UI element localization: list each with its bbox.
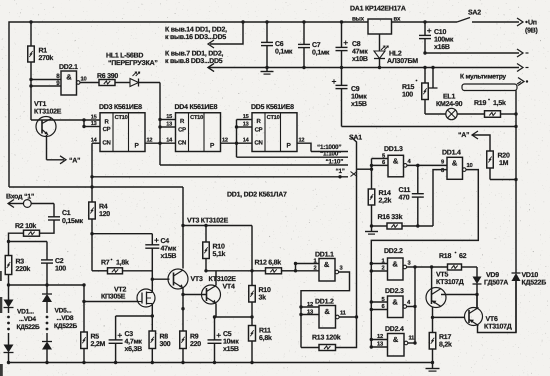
svg-text:R12 6,8k: R12 6,8k [255, 259, 282, 267]
svg-text:10мк: 10мк [223, 339, 239, 346]
svg-text:“А”: “А” [458, 132, 469, 139]
resistor R8 300 [149, 331, 171, 363]
wire: DD2.3 inputs [370, 300, 388, 311]
ignore: scan edge artifact 3 [0, 364, 3, 376]
wire: right vertical bus (multimeter/VD10 line) [515, 91, 517, 333]
svg-text:VD5...: VD5... [55, 308, 72, 315]
svg-text:HL2: HL2 [389, 51, 402, 58]
transistor VT3 КТ3102Е [168, 218, 229, 290]
svg-text:КМ24-90: КМ24-90 [436, 101, 463, 108]
wire: gate output node to R18 / VT5 base [415, 265, 448, 268]
resistor R13 120k [301, 317, 357, 351]
wire: R2 node to C2 [9, 241, 48, 243]
svg-text:CN: CN [178, 140, 186, 147]
resistor R6 390 [80, 73, 130, 86]
capacitor C6 0,1мк [261, 22, 293, 68]
svg-text:C11: C11 [399, 187, 411, 194]
wire: multimeter sense loop [462, 84, 517, 91]
wire: DD4 pin12 to DD5 pins and '1:100' tap [221, 120, 253, 158]
wire: clamp node y=285 [7, 283, 86, 286]
svg-text:VD9: VD9 [486, 272, 499, 279]
capacitor C7 0,1мк [298, 22, 330, 69]
svg-text:R10: R10 [259, 287, 271, 294]
logic gate DD1.2 [307, 299, 347, 329]
wire: rail to arrow (row 2) [425, 49, 529, 57]
resistor R7* 1,8k [92, 259, 152, 274]
svg-text:R4: R4 [99, 204, 108, 211]
svg-text:CP: CP [178, 126, 186, 133]
capacitor C9 10мк x15В (polarized) [332, 68, 367, 127]
svg-text:CN: CN [254, 140, 262, 147]
svg-text:12: 12 [307, 301, 313, 308]
logic gate DD2.2 [382, 248, 412, 280]
text: K vyv.7 DD1 DD2 / k vyv.8 DD3...DD5 with arrow [165, 51, 223, 72]
resistor R14 2,2k [368, 189, 391, 228]
wire: DD2.4 inputs [370, 338, 388, 349]
svg-text:HL1 L-56ВD: HL1 L-56ВD [106, 53, 143, 60]
wire: top supply bus (+) from left corner to DA1 and SA2 [9, 20, 457, 187]
wire: mid supply bus y=187 [9, 186, 183, 188]
wire: SA1 to DD1.3 inputs and R14 [357, 159, 389, 190]
svg-text:К выв.14 DD1, DD2,: К выв.14 DD1, DD2, [165, 27, 227, 34]
wire: VT5 collector row [441, 293, 479, 296]
svg-text:DA1 КР142ЕН17А: DA1 КР142ЕН17А [350, 6, 406, 13]
voltage regulator DA1 КР142ЕН17А [350, 6, 406, 35]
svg-text:x16В: x16В [434, 44, 450, 51]
svg-text:КТ3107Д: КТ3107Д [484, 324, 512, 331]
svg-text:8,2k: 8,2k [439, 341, 452, 349]
svg-text:R17: R17 [439, 334, 451, 341]
svg-text:C5: C5 [223, 331, 232, 338]
wire: VT4 base from VT3 emitter [183, 294, 207, 296]
svg-text:R18: R18 [439, 253, 451, 260]
svg-text:R14: R14 [379, 190, 391, 197]
wire: '1:10' line [160, 159, 348, 166]
svg-text:&: & [324, 260, 330, 269]
logic gate DD1.3 [382, 146, 411, 177]
svg-text:КД522Б: КД522Б [54, 323, 77, 330]
resistor R5 2,2М [81, 332, 106, 363]
svg-text:...VD8: ...VD8 [57, 315, 74, 322]
svg-text:CN: CN [102, 140, 110, 147]
capacitor C1 0,15мк [40, 204, 84, 234]
diodes VD1...VD4 КД522Б [4, 285, 40, 363]
resistor R10 5,1k [203, 226, 226, 273]
svg-text:“1:10”: “1:10” [326, 159, 344, 166]
svg-text:DD2.2: DD2.2 [384, 248, 403, 255]
svg-text:&: & [393, 157, 399, 166]
transistor VT1 КТ3102Е [34, 101, 62, 137]
svg-text:DD1.1: DD1.1 [315, 252, 334, 259]
switch SA2 [457, 10, 519, 23]
wire: DD1.2 output to SA1 line [339, 315, 358, 318]
capacitor C10 100мк x16В (polarized) [419, 22, 454, 55]
resistor R12 6,8k [255, 259, 296, 274]
ground (R16) [365, 226, 378, 234]
wire: DD2.2 inputs [370, 262, 388, 273]
wire: shunt tap stub [429, 68, 438, 89]
svg-text:R6 390: R6 390 [97, 73, 118, 80]
resistor R19* 1,5k [474, 99, 518, 118]
svg-text:КД522Б: КД522Б [17, 324, 40, 331]
wire: C9 bottom bus to right vertical [342, 125, 518, 128]
svg-text:10мк: 10мк [351, 94, 367, 101]
wire: VT4 emitter to node [215, 304, 217, 318]
svg-text:КТ3102Е: КТ3102Е [209, 276, 237, 283]
ground (C6/C7 bus) [261, 66, 274, 74]
svg-text:R11: R11 [259, 328, 271, 335]
svg-text:DD1, DD2 К561ЛА7: DD1, DD2 К561ЛА7 [227, 192, 287, 199]
wire: DD1.1 output loop to DD1.2 inputs [299, 272, 349, 348]
svg-text:ГД507А: ГД507А [484, 280, 508, 287]
svg-text:VD1...: VD1... [17, 309, 34, 316]
svg-text:(9В): (9В) [525, 27, 538, 35]
wire: DD3 CN stub and '1' tap vertical [90, 143, 100, 189]
wire: DD1.4 output loop to DD2 inputs [371, 170, 478, 347]
svg-text:VT2: VT2 [114, 287, 126, 294]
wire: R1 node to DD2.1 pins 8 and 9 [29, 78, 61, 120]
svg-text:R7: R7 [101, 260, 110, 267]
capacitor C4 47мк x15В (polarized) [145, 234, 176, 272]
lamp EL1 КМ24-90 [425, 94, 485, 120]
resistor R4 120 [89, 187, 111, 271]
svg-text:C9: C9 [351, 86, 360, 93]
svg-text:DD1.3: DD1.3 [384, 146, 403, 153]
svg-text:C7: C7 [312, 42, 321, 49]
wire: VT2 source node to C3 and R8 [116, 314, 154, 331]
capacitor C3 4,7мк x6,3В (polarized) [109, 316, 143, 363]
node A (right) with arrow and wire to R20 [458, 131, 490, 151]
svg-text:300: 300 [160, 341, 171, 348]
svg-text:...VD4: ...VD4 [19, 316, 36, 323]
svg-text:C2: C2 [55, 258, 64, 265]
logic gate DD2.4 [377, 326, 415, 356]
svg-text:R20: R20 [498, 153, 510, 160]
svg-text:0,15мк: 0,15мк [62, 218, 84, 225]
resistor R10 3k [249, 226, 271, 303]
svg-text:2,2k: 2,2k [379, 197, 392, 205]
LED HL2 АЛ307БМ [374, 34, 418, 69]
svg-text:“1”: “1” [336, 168, 345, 175]
resistor R9 220 [180, 331, 202, 349]
svg-text:x15В: x15В [351, 101, 367, 108]
svg-text:вых: вых [352, 16, 365, 23]
svg-text:5,1k: 5,1k [213, 250, 226, 258]
svg-text:100мк: 100мк [434, 37, 454, 44]
transistor VT6 КТ3107Д [465, 308, 512, 331]
svg-text:&: & [66, 73, 72, 82]
wire: VT5 emitter [431, 307, 434, 333]
svg-text:DD4 К561ИЕ8: DD4 К561ИЕ8 [175, 104, 218, 111]
ignore: scan edge artifact 2 [0, 297, 2, 313]
svg-text:10: 10 [81, 76, 87, 83]
svg-text:R1: R1 [39, 48, 48, 55]
resistor R15 100 [402, 68, 428, 115]
svg-text:R5: R5 [91, 334, 100, 341]
svg-text:C1: C1 [62, 210, 71, 217]
wire: y=187 bus to collector rail [181, 187, 252, 269]
svg-text:15: 15 [91, 114, 97, 120]
wire: DD2 outputs parallel bus [407, 265, 417, 344]
svg-text:VT4: VT4 [223, 284, 235, 291]
svg-text:4,7мк: 4,7мк [125, 339, 143, 346]
wire: VT6 collector [476, 295, 478, 309]
svg-text:0,1мк: 0,1мк [275, 49, 293, 56]
logic gate DD2.1 [56, 64, 86, 95]
wire: VT4 collector [215, 271, 217, 286]
svg-text:C6: C6 [275, 41, 284, 48]
input terminal Вход '1' [6, 194, 54, 208]
svg-text:x10В: x10В [352, 56, 368, 63]
svg-text:CT10: CT10 [115, 115, 128, 121]
svg-text:1,8k: 1,8k [116, 259, 129, 267]
wire: DD5 pin12 to '1:1000' line [297, 143, 311, 151]
resistor R11 6,8k [249, 302, 272, 363]
svg-text:x15В: x15В [161, 253, 177, 260]
svg-text:&: & [392, 260, 398, 269]
svg-text:62: 62 [459, 253, 467, 260]
svg-text:&: & [324, 307, 330, 316]
svg-text:x15В: x15В [223, 346, 239, 353]
wire: DD3 pin12 to DD4 pins (and HL1 node vertical) [145, 83, 176, 166]
ground (main, bottom right) [426, 363, 440, 372]
svg-text:вх: вх [394, 16, 402, 23]
wire: VT6 base from VT5 emitter [433, 316, 465, 318]
svg-text:DD2.3: DD2.3 [385, 288, 404, 295]
svg-text:100: 100 [55, 266, 66, 273]
resistor R20 1М [487, 151, 518, 181]
ignore: scan edge artifact 1 [0, 271, 2, 281]
svg-text:120: 120 [99, 211, 110, 218]
node: VT2 drain / VT3 base junction [151, 271, 170, 290]
svg-text:R19: R19 [474, 100, 486, 107]
svg-text:R3: R3 [16, 259, 25, 266]
svg-text:“1:100”: “1:100” [320, 151, 341, 158]
switch SA1 [349, 135, 362, 318]
svg-text:2,2М: 2,2М [91, 341, 106, 348]
logic gate DD1.1 [314, 252, 344, 282]
svg-text:R15: R15 [402, 84, 414, 91]
svg-text:CT10: CT10 [267, 115, 280, 121]
svg-text:АЛ307БМ: АЛ307БМ [387, 58, 418, 65]
text: K vyv.14 DD1 DD2 / k vyv.16 DD3...DD5 with arrow [165, 22, 243, 48]
svg-text:220: 220 [190, 341, 201, 348]
svg-text:SA2: SA2 [468, 10, 481, 17]
resistor R16 33k [372, 213, 434, 229]
resistor R2 10k [7, 222, 40, 243]
svg-text:К выв.7 DD1, DD2,: К выв.7 DD1, DD2, [165, 51, 223, 58]
svg-text:470: 470 [399, 195, 410, 202]
counter DD3 К561ИЕ8 [91, 104, 153, 152]
svg-text:“А”: “А” [69, 158, 80, 165]
svg-text:13: 13 [307, 308, 314, 315]
svg-text:100: 100 [402, 92, 413, 99]
wire: VT4 emitter row to R11 [213, 315, 254, 318]
svg-text:R16 33k: R16 33k [378, 213, 403, 221]
svg-text:C10: C10 [434, 29, 446, 36]
svg-text:3k: 3k [259, 294, 267, 302]
svg-text:47мк: 47мк [161, 246, 177, 253]
logic gate DD1.4 [441, 150, 472, 180]
diode VD9 ГД507А [473, 267, 509, 308]
svg-text:DD2.4: DD2.4 [385, 326, 404, 333]
diode VD10 КД522Б [512, 272, 547, 287]
wire: VT1 emitter to node A with arrow [47, 135, 81, 165]
svg-text:VT3: VT3 [191, 276, 203, 283]
svg-text:КТ3102Е: КТ3102Е [34, 109, 62, 116]
terminal arrow -Uп (9В) [517, 18, 538, 35]
resistor R17 8,2k [429, 333, 452, 363]
wire: '1:100' line [237, 151, 349, 158]
capacitor C2 100 [41, 242, 66, 286]
LED HL1 L-5680 'ПЕРЕГРУЗКА' [106, 53, 160, 87]
wire: '1' line [92, 168, 348, 179]
svg-text:VT3 КТ3102Е: VT3 КТ3102Е [187, 218, 229, 225]
capacitor C11 470 [399, 164, 424, 228]
svg-text:0,1мк: 0,1мк [312, 50, 330, 57]
capacitor C8 47мк x10В (polarized) [336, 22, 369, 69]
svg-text:DD1.2: DD1.2 [315, 299, 334, 306]
svg-text:220k: 220k [16, 265, 31, 273]
svg-text:C3: C3 [125, 331, 134, 338]
svg-text:C4: C4 [161, 238, 170, 245]
wire: node to DD3 pins 15/13 [31, 118, 100, 128]
wire: VT3 emitter rail [181, 288, 184, 363]
svg-text:R10: R10 [213, 244, 225, 251]
svg-text:Uп: Uп [528, 20, 537, 27]
svg-text:CP: CP [103, 126, 111, 133]
svg-text:&: & [393, 335, 399, 344]
svg-text:10: 10 [467, 162, 473, 169]
svg-text:“ПЕРЕГРУЗКА”: “ПЕРЕГРУЗКА” [108, 60, 158, 67]
svg-text:&: & [392, 298, 398, 307]
transistor VT4 КТ3107... (КТ3102Е) [202, 276, 237, 304]
resistor R3 220k [5, 242, 30, 286]
FET VT2 КП305Е [101, 287, 155, 317]
svg-text:VT1: VT1 [34, 101, 46, 108]
wire: R4 node to C4 top [92, 233, 152, 235]
svg-text:VT6: VT6 [486, 316, 498, 323]
svg-text:DD3 К561ИЕ8: DD3 К561ИЕ8 [99, 104, 142, 111]
diodes VD5...VD8 КД522Б [42, 285, 77, 363]
svg-text:DD5 К561ИЕ8: DD5 К561ИЕ8 [251, 104, 294, 111]
counter DD5 К561ИЕ8 [243, 104, 305, 152]
wire: bottom ground bus [7, 361, 434, 364]
svg-text:VT5: VT5 [436, 272, 448, 279]
wire: R10/VT4 collector row to R12 [206, 269, 266, 272]
svg-text:&: & [452, 159, 458, 168]
transistor VT5 КТ3107Д [426, 272, 464, 308]
counter DD4 К561ИЕ8 [166, 104, 228, 152]
svg-text:13: 13 [91, 121, 97, 127]
capacitor C5 10мк x15В (polarized) [208, 317, 240, 363]
node A (emitter side) [0, 0, 1, 1]
text: К мультиметру with arrow [460, 74, 528, 86]
svg-text:К мультиметру: К мультиметру [460, 74, 506, 81]
resistor R18* 62 [439, 252, 477, 270]
wire: DD1.3 out to DD1.4 pin 9 [407, 164, 447, 167]
svg-text:EL1: EL1 [443, 94, 455, 101]
svg-text:CT10: CT10 [190, 115, 203, 121]
svg-text:47мк: 47мк [352, 49, 368, 56]
svg-text:C8: C8 [352, 41, 361, 48]
wire: DD1.4 pin 8 from R16 node [433, 170, 447, 226]
svg-text:DD1.4: DD1.4 [442, 150, 461, 157]
svg-text:Вход “1”: Вход “1” [6, 194, 34, 201]
wire: '1:1000' line [311, 144, 348, 152]
wire: VT6 emitter loop to VD10 [478, 281, 517, 333]
svg-text:R2 10k: R2 10k [15, 222, 36, 230]
wire: VT2 gate from divider node [82, 285, 138, 332]
logic gate DD2.3 [382, 288, 411, 318]
svg-text:R13 120k: R13 120k [312, 334, 341, 342]
svg-text:R8: R8 [160, 334, 169, 341]
svg-text:КД522Б: КД522Б [522, 280, 547, 287]
svg-text:1,5k: 1,5k [493, 99, 506, 107]
svg-text:КТ3107Д: КТ3107Д [436, 279, 464, 286]
text: DD1, DD2 К561ЛА7 [227, 192, 287, 199]
resistor R1 270k [28, 22, 54, 80]
wire: mid bus with arrow (row 3) [208, 64, 529, 72]
wire: R12 node to DD1.1 pins [294, 262, 319, 273]
svg-text:КП305Е: КП305Е [101, 294, 126, 301]
svg-text:1М: 1М [499, 160, 509, 167]
wire: VT5 base [431, 267, 433, 291]
svg-text:к выв.16 DD3...DD5: к выв.16 DD3...DD5 [165, 34, 226, 41]
svg-text:R9: R9 [190, 334, 199, 341]
svg-text:DD2.1: DD2.1 [59, 64, 78, 71]
svg-text:x6,3В: x6,3В [125, 346, 143, 353]
svg-text:270k: 270k [39, 54, 54, 62]
svg-text:6,8k: 6,8k [259, 334, 272, 342]
svg-text:VD10: VD10 [522, 272, 539, 279]
svg-text:CP: CP [255, 126, 263, 133]
